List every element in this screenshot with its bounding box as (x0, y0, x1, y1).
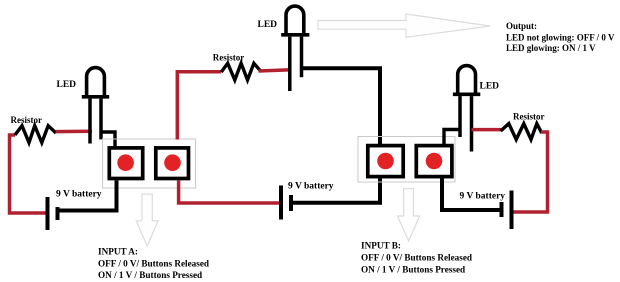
battery B1 (48, 197, 58, 230)
label: Output text block (506, 21, 615, 53)
svg-text:INPUT A:: INPUT A: (98, 247, 138, 257)
enclosure box around pushbuttons S1 S2 (gray) (103, 139, 196, 188)
annotation arrow: INPUT B (white block arrow, down) (397, 189, 419, 242)
resistor R2 (221, 63, 260, 80)
svg-text:9 V battery: 9 V battery (288, 182, 334, 192)
wire: LED D3 anode to resistor R3 (red) (472, 128, 502, 132)
svg-text:OFF / 0 V/ Buttons Released: OFF / 0 V/ Buttons Released (361, 253, 472, 263)
svg-text:9 V battery: 9 V battery (460, 192, 506, 202)
battery B2 (281, 186, 291, 220)
annotation arrow: Output (white block arrow, right) (318, 14, 490, 37)
LED D2 (281, 6, 309, 91)
pushbutton S4 (416, 146, 452, 177)
annotation arrow: INPUT A (white block arrow, down) (136, 194, 158, 246)
svg-text:Resistor: Resistor (11, 115, 43, 125)
LED D3 (453, 66, 480, 152)
label: INPUT A text block (98, 247, 209, 281)
wire: pushbutton S2 to battery B2 positive (red) (179, 181, 279, 204)
svg-text:LED not glowing: OFF / 0 V: LED not glowing: OFF / 0 V (506, 33, 615, 43)
pushbutton S2 (156, 148, 189, 179)
svg-text:LED glowing: ON / 1 V: LED glowing: ON / 1 V (506, 43, 596, 53)
resistor R3 (501, 124, 542, 140)
LED D1 (82, 68, 109, 144)
wire: resistor R2 to pushbutton S2 (red, middle net) (177, 72, 221, 140)
svg-text:ON / 1 V / Buttons Pressed: ON / 1 V / Buttons Pressed (361, 265, 465, 275)
wire: pushbutton S1 to battery B1 negative (black) (60, 180, 117, 210)
label: INPUT B text block (361, 241, 472, 275)
svg-text:ON / 1 V / Buttons Pressed: ON / 1 V / Buttons Pressed (98, 270, 202, 280)
enclosure box around pushbuttons S3 S4 (gray) (358, 137, 455, 183)
svg-text:INPUT B:: INPUT B: (361, 241, 401, 251)
pushbutton S3 (368, 146, 403, 177)
svg-text:9 V battery: 9 V battery (56, 190, 102, 200)
wire: resistor R2 to LED D2 anode (red) (259, 70, 292, 71)
svg-text:LED: LED (57, 80, 77, 90)
wire: resistor R3 to battery B3 positive (red) (514, 132, 548, 212)
svg-text:LED: LED (480, 82, 500, 92)
wire: LED D2 cathode to pushbutton S3 (black) (301, 68, 380, 144)
wire: LED D3 cathode to pushbutton S4 (black) (444, 130, 462, 145)
wire: battery B2 negative to pushbutton S3 (black) (293, 178, 380, 202)
wire: pushbutton S4 to battery B3 negative (black) (442, 178, 500, 210)
wire: battery B1 positive to resistor R1 (red, left side) (10, 135, 46, 213)
battery B3 (502, 191, 512, 230)
svg-text:LED: LED (258, 20, 278, 30)
svg-text:Resistor: Resistor (513, 111, 545, 121)
svg-text:Resistor: Resistor (213, 52, 245, 62)
wire: resistor R1 to LED D1 anode (red) (56, 129, 93, 133)
svg-text:OFF / 0 V/ Buttons Released: OFF / 0 V/ Buttons Released (98, 259, 209, 269)
wire: LED D1 cathode to pushbutton S1 (black) (101, 132, 115, 147)
svg-text:Output:: Output: (506, 21, 537, 31)
pushbutton S1 (109, 148, 142, 179)
resistor R1 (15, 126, 56, 143)
